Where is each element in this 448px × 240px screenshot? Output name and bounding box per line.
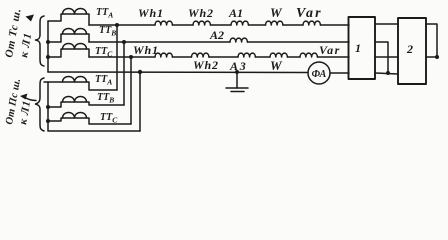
node: jog joins bottom wire [386, 71, 390, 75]
ground [226, 72, 248, 92]
svg-text:А2: А2 [209, 28, 224, 42]
brace (top group) [36, 16, 45, 66]
arrow (top group) [26, 15, 35, 22]
wire [172, 56, 191, 58]
riser 4 (bottom common to line 4) [139, 72, 141, 131]
node: ground tap on line 4 [235, 70, 239, 74]
arrow (bottom group) [20, 94, 28, 100]
coil A3 (line 3) [238, 53, 255, 57]
transformer TT_A (top group) [48, 8, 89, 25]
svg-text:ТТА: ТТА [96, 7, 113, 20]
wire [255, 56, 270, 58]
wire [320, 24, 349, 26]
svg-text:к Л1: к Л1 [17, 99, 33, 125]
riser 3 (from bottom TT_C to line 3) [130, 57, 132, 124]
node: TT_C tap on bottom common [46, 119, 50, 123]
svg-text:Wh2: Wh2 [193, 58, 219, 72]
wire [209, 56, 238, 58]
wire [287, 56, 300, 58]
coil W (line 3) [270, 53, 287, 57]
wire: block2 right top to right bus [426, 24, 437, 57]
coil Wh1 (line 1) [155, 21, 172, 25]
svg-text:А1: А1 [228, 6, 243, 20]
wire [247, 41, 349, 43]
svg-text:ФА: ФА [312, 69, 327, 80]
meter ФА (phase meter on line 4) [308, 62, 330, 84]
svg-text:ТТВ: ТТВ [99, 25, 116, 38]
node: riser 1 joins line 1 [115, 23, 119, 27]
svg-text:к Л1: к Л1 [18, 31, 34, 58]
wire: block1-block2 bottom (line 4 net) [375, 73, 398, 74]
node: TT_B tap on common [46, 40, 50, 44]
svg-text:Var: Var [319, 43, 341, 57]
svg-text:1: 1 [355, 41, 361, 55]
wire [283, 24, 303, 26]
brace (bottom group) [36, 78, 45, 131]
svg-text:W: W [270, 5, 283, 20]
coil Wh1 (line 3) [155, 53, 172, 57]
transformer TT_C (top group) [48, 43, 89, 57]
coil W (line 1) [266, 21, 283, 25]
wire: block1 jog (line 2 net) [375, 42, 388, 73]
transformer TT_B (bottom group) [48, 96, 124, 107]
node: riser 4 joins line 4 [138, 70, 142, 74]
svg-text:2: 2 [406, 42, 413, 56]
riser 2 (from bottom TT_B to line 2) [123, 42, 125, 105]
svg-text:Wh1: Wh1 [133, 43, 159, 57]
svg-text:ТТВ: ТТВ [97, 92, 114, 105]
wire: top group common vertical [47, 21, 49, 72]
riser 1 (from bottom TT_A to line 1) [116, 25, 118, 90]
coil Var (line 1) [303, 21, 320, 25]
wire: block1-block2 top (line 1 net) [375, 23, 398, 25]
coil Var (line 3) [300, 53, 317, 57]
wire: line 1 (phase A) [89, 24, 155, 26]
node: TT_B tap on bottom common [46, 105, 50, 109]
wire: line 4 right part [330, 72, 349, 74]
wire: line 4 (common) left part [48, 71, 308, 74]
wire: bottom group common vertical [48, 82, 140, 131]
svg-text:Var: Var [296, 6, 323, 21]
node: riser 3 joins line 3 [129, 55, 133, 59]
coil Wh2 (line 1) [193, 21, 210, 25]
wire [248, 24, 265, 26]
node: TT_C tap on common [46, 55, 50, 59]
coil A2 (line 2) [230, 38, 247, 42]
svg-text:Wh2: Wh2 [188, 6, 214, 20]
node: riser 2 joins line 2 [122, 40, 126, 44]
block 2 (meter box) [398, 18, 426, 84]
node: right bus junction [435, 55, 439, 59]
wire [210, 24, 231, 26]
svg-text:Wh1: Wh1 [138, 6, 164, 20]
svg-text:ТТС: ТТС [100, 112, 118, 125]
wire: block2 right middle to right bus [426, 56, 437, 58]
wire: block1-block2 middle (line 3 net) [375, 56, 398, 58]
block 1 (terminal box) [349, 17, 376, 79]
transformer TT_C (bottom group) [48, 112, 131, 124]
wire: line 2 (phase B) [89, 41, 230, 43]
coil A1 (line 1) [231, 21, 248, 25]
wire [172, 24, 193, 26]
coil Wh2 (line 3) [192, 53, 209, 57]
transformer TT_B (top group) [48, 28, 89, 42]
wire [317, 56, 349, 58]
svg-text:ТТА: ТТА [95, 74, 112, 87]
wire: line 3 (phase C) [89, 56, 155, 58]
transformer TT_A (bottom group) [44, 76, 117, 90]
svg-text:W: W [270, 58, 283, 73]
